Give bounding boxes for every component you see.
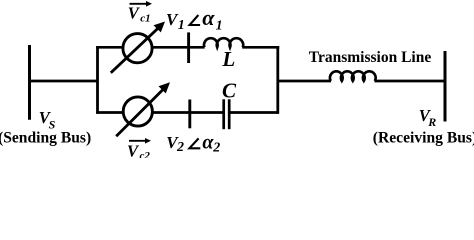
svg-text:α: α xyxy=(202,5,215,30)
transmission line inductor coil xyxy=(330,71,376,81)
node V1 tick xyxy=(187,32,190,63)
sending bus bar xyxy=(28,45,31,120)
sending bus voltage label VS xyxy=(39,108,56,132)
node label V2 angle a2 xyxy=(166,131,220,155)
wire from sending bus to junction xyxy=(30,80,98,83)
svg-text:c2: c2 xyxy=(140,150,151,158)
bottom branch wire right of capacitor xyxy=(229,111,279,114)
top branch wire left of inductor xyxy=(96,46,204,49)
transmission line wire right of coil xyxy=(375,80,446,83)
receiving bus voltage label VR xyxy=(419,106,436,129)
inductor L coil xyxy=(204,38,243,47)
variable voltage source circle Vc2 xyxy=(123,97,152,126)
variable source arrow Vc1 xyxy=(111,22,165,73)
svg-text:1: 1 xyxy=(178,18,185,33)
node label Vc1 with vector arrow xyxy=(128,1,152,25)
right junction vertical wire xyxy=(276,46,279,114)
svg-text:V: V xyxy=(127,142,140,158)
variable voltage source circle Vc1 xyxy=(123,34,152,63)
bottom branch wire left of capacitor xyxy=(96,111,223,114)
left junction vertical wire xyxy=(96,46,99,114)
svg-text:(Receiving Bus): (Receiving Bus) xyxy=(373,130,474,147)
top branch wire right of inductor xyxy=(242,46,279,49)
svg-text:2: 2 xyxy=(212,140,220,155)
transmission line wire left of coil xyxy=(278,80,331,83)
svg-text:Transmission Line: Transmission Line xyxy=(309,49,432,66)
node V2 tick xyxy=(188,100,191,129)
svg-text:1: 1 xyxy=(216,18,223,33)
svg-text:V: V xyxy=(128,3,141,22)
variable source arrow Vc2 xyxy=(116,82,170,136)
svg-text:L: L xyxy=(221,47,235,71)
node label V1 angle a1 xyxy=(166,5,223,33)
capacitor C plates xyxy=(224,99,230,129)
receiving bus bar xyxy=(444,51,447,122)
svg-text:2: 2 xyxy=(176,140,184,155)
svg-text:R: R xyxy=(427,115,436,129)
svg-text:(Sending Bus): (Sending Bus) xyxy=(0,130,91,147)
svg-text:c1: c1 xyxy=(140,13,150,25)
node label Vc2 with vector arrow xyxy=(127,138,151,162)
svg-text:C: C xyxy=(222,79,237,103)
